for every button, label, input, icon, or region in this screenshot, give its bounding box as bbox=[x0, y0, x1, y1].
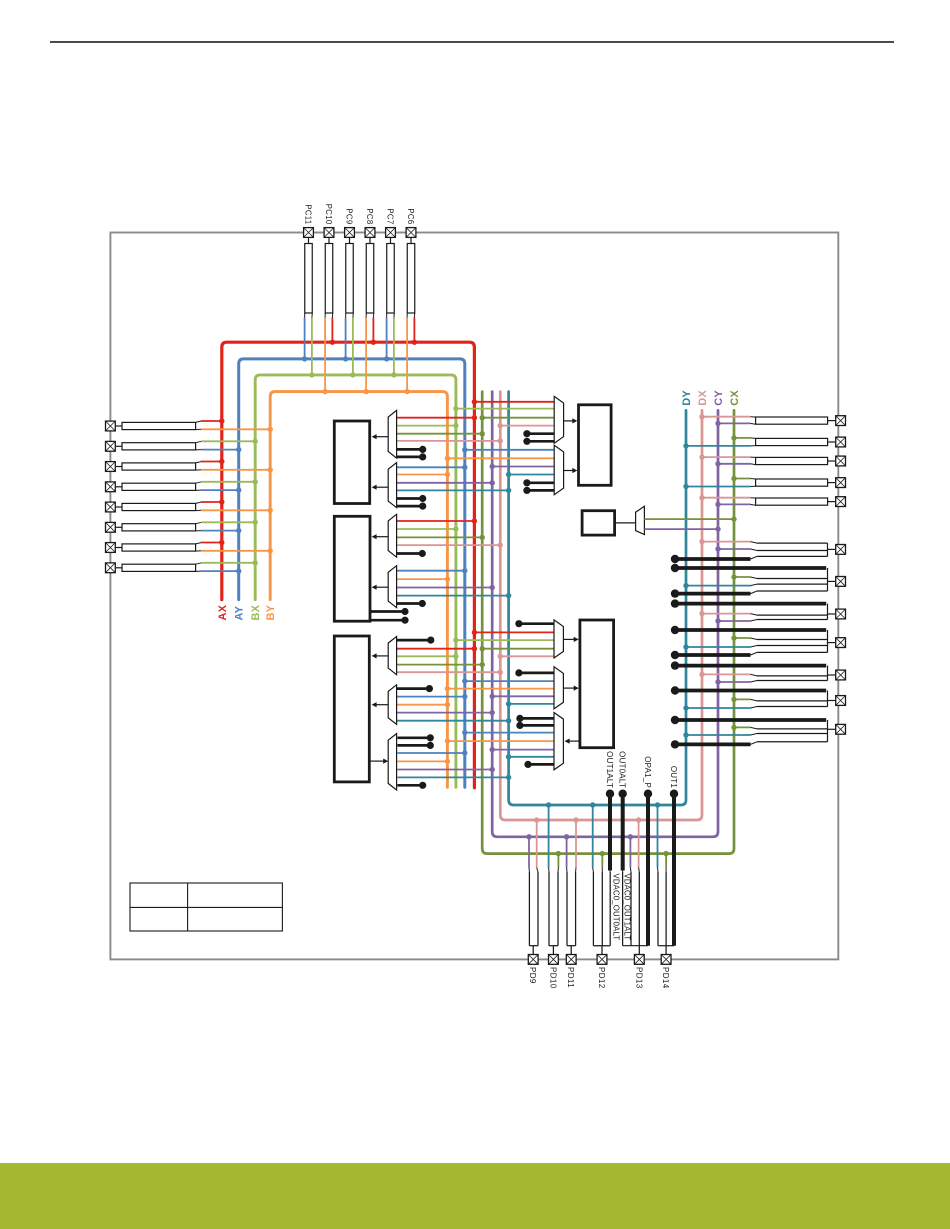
wire left L4 upper stub bbox=[196, 482, 202, 483]
wire OPA demux to CY bbox=[397, 769, 492, 771]
svg-text:PD11: PD11 bbox=[566, 967, 575, 988]
wire CY to ACMP1 mux2 bbox=[397, 587, 493, 589]
pad PC9 bbox=[345, 228, 355, 238]
wire BX to ACMP0 mux bbox=[397, 425, 456, 427]
wire CY to IADC mux1 bbox=[492, 466, 554, 468]
wire bus AY bbox=[239, 359, 465, 787]
wire BY to VDAC mux1 bbox=[447, 688, 554, 690]
mux OPA M6 bbox=[388, 685, 396, 725]
pin tap OPA demux c bbox=[397, 784, 422, 787]
pad PC6 bbox=[406, 228, 416, 238]
wire BY to ACMP1 mux2 bbox=[397, 578, 448, 580]
wire PC11 switch right to bus bbox=[311, 313, 313, 318]
pad right RB5 bbox=[836, 670, 846, 680]
pin tap IADC mux1 a bbox=[527, 481, 554, 484]
svg-text:PD13: PD13 bbox=[634, 967, 643, 989]
pin bracket pad RB4 bbox=[827, 630, 829, 652]
pin PC11 body bbox=[308, 238, 310, 244]
wire right R1 upper stub bbox=[750, 416, 755, 418]
pad PC7 bbox=[386, 228, 396, 238]
wire purple stub pad RB1 bbox=[718, 548, 751, 550]
pin tap short pad RB2 bbox=[675, 592, 751, 596]
footer green bar bbox=[0, 1163, 950, 1229]
pin tap short pad RB1 bbox=[675, 557, 751, 561]
pin tap long pad RB2 bbox=[675, 566, 826, 570]
wire VDAC demux to BY bbox=[447, 740, 554, 742]
wire pink stub pad RB5 bbox=[702, 673, 751, 675]
pin tap long pad RB4 bbox=[675, 628, 826, 632]
pad right RB1 bbox=[836, 545, 846, 555]
wire AX to VDAC mux0 bbox=[474, 631, 554, 633]
wire DX to OPA mux0 bbox=[397, 671, 501, 673]
svg-text:PC7: PC7 bbox=[386, 208, 395, 224]
pin PC6 body bbox=[410, 238, 412, 244]
pad left L4 bbox=[106, 482, 116, 492]
pin tap VDAC mux0 a bbox=[519, 622, 554, 625]
pin tap ACMP1 out a bbox=[370, 610, 405, 613]
wire CY to OPA mux1 bbox=[397, 712, 493, 714]
pin right R1 body bbox=[756, 417, 828, 424]
wire BY to IADC mux1 bbox=[447, 457, 554, 459]
pin PD11 fan bbox=[566, 868, 568, 873]
pad right RB2 bbox=[836, 577, 846, 587]
wire left L8 lower stub bbox=[196, 570, 202, 572]
pin tap ACMP1 mux2 a bbox=[397, 602, 423, 605]
pad PD13 bbox=[634, 955, 644, 965]
pin bracket pad RB1 bbox=[827, 543, 829, 556]
svg-text:PC10: PC10 bbox=[324, 204, 333, 225]
pin right R3 body bbox=[756, 457, 828, 464]
pin left L6 body bbox=[116, 526, 122, 528]
wire bus BY bbox=[270, 392, 447, 788]
pad PC10 bbox=[324, 228, 334, 238]
pin left L5 body bbox=[116, 506, 122, 508]
wire VDAC demux to CY bbox=[492, 749, 554, 751]
wire olive stub pad RB2 bbox=[734, 576, 751, 578]
pad PD11 bbox=[566, 955, 576, 965]
pad right R4 bbox=[836, 478, 846, 488]
wire left L7 lower stub bbox=[196, 550, 202, 552]
pad right RB7 bbox=[836, 724, 846, 734]
wire DY to IADC mux1 bbox=[509, 474, 555, 476]
wire BY to OPA mux1 bbox=[397, 704, 448, 706]
wire AX to ACMP0 mux bbox=[397, 417, 475, 419]
pad right R3 bbox=[836, 456, 846, 466]
pin left L7 body bbox=[116, 547, 122, 549]
svg-text:CY: CY bbox=[713, 390, 725, 406]
pin bracket pad RB6 bbox=[827, 691, 829, 707]
wire DX to ACMP1 mux bbox=[397, 544, 501, 546]
pin tap long pad RB7 bbox=[675, 718, 826, 722]
mux VDAC P0 bbox=[554, 620, 563, 658]
wire left L5 upper stub bbox=[196, 502, 202, 503]
pin PD10 fan bbox=[548, 868, 550, 873]
pin tap VDAC demux c bbox=[528, 763, 554, 766]
pin bracket pad RB5 bbox=[827, 666, 829, 681]
wire CX to IADC mux0 bbox=[482, 417, 554, 419]
wire teal stub pad RB7 bbox=[686, 734, 751, 736]
pin PC9 body bbox=[349, 238, 351, 244]
wire DX stub PD13 bbox=[638, 820, 640, 868]
legend table bbox=[130, 883, 282, 931]
wire CX to ACMP0 mux bbox=[397, 433, 483, 435]
wire PC6 switch right to bus bbox=[413, 313, 415, 318]
pin tap VDAC demux b bbox=[520, 724, 554, 727]
block OPA bbox=[334, 636, 369, 782]
pin PD12 fan bbox=[592, 868, 595, 873]
wire pink stub pad RB1 bbox=[702, 541, 751, 543]
wire demux to CY bbox=[644, 528, 718, 530]
svg-text:DY: DY bbox=[681, 390, 693, 406]
pad PD14 bbox=[661, 955, 671, 965]
wire CY stub PD9 bbox=[528, 837, 530, 868]
pin bracket pad RB7 bbox=[827, 720, 829, 742]
wire bus CX bbox=[482, 392, 734, 854]
block IADC bbox=[579, 405, 612, 486]
pad left L8 bbox=[106, 563, 116, 573]
mux ACMP1 M4 bbox=[388, 566, 396, 608]
pin tap VDAC demux a bbox=[520, 717, 554, 720]
wire PC7 switch right to bus bbox=[393, 313, 395, 318]
svg-text:OUT1: OUT1 bbox=[669, 766, 678, 788]
wire CX to ACMP1 mux bbox=[397, 536, 483, 538]
svg-text:PC9: PC9 bbox=[345, 208, 354, 224]
wire right R4 upper stub bbox=[750, 478, 755, 481]
pad left L6 bbox=[106, 522, 116, 532]
wire AY to VDAC mux1 bbox=[465, 680, 554, 682]
svg-text:PD9: PD9 bbox=[528, 967, 537, 984]
svg-text:BY: BY bbox=[265, 604, 277, 620]
mux VDAC P1 bbox=[554, 667, 563, 709]
wire left L5 lower stub bbox=[196, 509, 202, 511]
mux ACMP1 M3 bbox=[388, 514, 396, 557]
wire left L2 lower stub bbox=[196, 449, 202, 451]
wire right R4 lower stub bbox=[750, 485, 755, 487]
pin tap OPA mux1 a bbox=[397, 687, 430, 690]
wire left L7 upper stub bbox=[196, 543, 202, 544]
wire AY to ACMP0 mux2 bbox=[397, 466, 465, 468]
wire DX to IADC mux0 bbox=[500, 425, 554, 427]
pin left L3 body bbox=[116, 466, 122, 468]
pad PD10 bbox=[549, 955, 559, 965]
wire left L8 upper stub bbox=[196, 563, 202, 564]
svg-text:PD12: PD12 bbox=[597, 967, 606, 989]
wire PC9 switch left to bus bbox=[345, 313, 347, 318]
svg-text:PC11: PC11 bbox=[304, 204, 313, 224]
pad PC11 bbox=[304, 228, 314, 238]
wire CX stub PD10 bbox=[557, 854, 559, 868]
pin bracket pad RB2 bbox=[827, 568, 829, 591]
wire CY stub PD13 bbox=[629, 837, 631, 868]
pin bracket pad RB3 bbox=[827, 604, 829, 620]
pin left L2 body bbox=[116, 445, 122, 447]
pin tap IADC mux0 a bbox=[527, 432, 554, 435]
pin tap OPA demux a bbox=[397, 736, 430, 739]
svg-text:BX: BX bbox=[250, 604, 262, 620]
wire teal stub pad RB6 bbox=[686, 707, 751, 709]
mux OPA M5 bbox=[388, 637, 396, 675]
svg-text:CX: CX bbox=[729, 390, 741, 406]
wire CX stub PD12 bbox=[601, 854, 603, 868]
svg-text:OUT1ALT: OUT1ALT bbox=[605, 751, 614, 788]
wire teal stub pad RB2 bbox=[686, 585, 751, 587]
wire DY to ACMP0 mux2 bbox=[397, 489, 509, 491]
wire PC6 switch left to bus bbox=[406, 313, 408, 318]
svg-text:AY: AY bbox=[234, 605, 246, 620]
wire left L6 lower stub bbox=[196, 530, 202, 532]
wire bus DY bbox=[509, 392, 686, 805]
pin right R5 body bbox=[756, 498, 828, 505]
block VDAC2 bbox=[580, 620, 614, 748]
pad PC8 bbox=[365, 228, 375, 238]
svg-text:AX: AX bbox=[217, 604, 229, 620]
pad PD12 bbox=[597, 955, 607, 965]
pad right RB3 bbox=[836, 609, 846, 619]
wire CY to VDAC mux1 bbox=[492, 695, 554, 697]
wire right R5 upper stub bbox=[750, 497, 755, 499]
pin tap long pad RB3 bbox=[675, 602, 826, 606]
pin PD13 fan bbox=[622, 871, 624, 873]
wire right R2 lower stub bbox=[750, 445, 755, 447]
pad right R2 bbox=[836, 437, 846, 447]
wire DY stub PD10 bbox=[548, 805, 550, 868]
svg-text:PD10: PD10 bbox=[548, 967, 557, 989]
wire OPA demux to DY bbox=[397, 776, 508, 778]
pin tap ACMP0 mux2 a bbox=[397, 497, 423, 500]
pin right R4 body bbox=[756, 479, 828, 486]
pad left L1 bbox=[106, 421, 116, 431]
svg-text:PC8: PC8 bbox=[365, 208, 374, 224]
wire CX to VDAC mux0 bbox=[482, 648, 554, 650]
mux ACMP0 M1 bbox=[388, 410, 396, 458]
wire CX to OPA mux0 bbox=[397, 664, 483, 666]
pin tap OPA mux0 a bbox=[397, 639, 431, 642]
pad right RB6 bbox=[836, 696, 846, 706]
demux VDAC P2 bbox=[554, 713, 563, 770]
pin tap OPA demux b bbox=[397, 744, 430, 747]
wire DY stub PD12 bbox=[592, 805, 594, 868]
wire purple stub pad RB5 bbox=[718, 681, 751, 683]
wire PC10 switch left to bus bbox=[324, 313, 326, 318]
wire VDAC demux to AY bbox=[465, 732, 554, 734]
pad left L7 bbox=[106, 543, 116, 553]
wire AY to IADC mux1 bbox=[465, 449, 554, 451]
wire OPA demux to AY bbox=[397, 752, 464, 754]
wire CY stub PD11 bbox=[566, 837, 568, 868]
wire PC10 switch right to bus bbox=[331, 313, 333, 318]
wire olive stub pad RB6 bbox=[734, 698, 751, 700]
wire VDAC demux to DY bbox=[509, 756, 554, 758]
pin PC7 body bbox=[390, 238, 392, 244]
wire AY to OPA mux1 bbox=[397, 696, 465, 698]
demux VDAC buf bbox=[636, 506, 645, 534]
wire pink stub pad RB3 bbox=[702, 613, 751, 615]
wire BX to OPA mux0 bbox=[397, 655, 456, 657]
wire teal stub pad RB4 bbox=[686, 646, 751, 648]
wire BX to IADC mux0 bbox=[456, 408, 554, 410]
wire left L6 upper stub bbox=[196, 522, 202, 523]
wire PC8 switch left to bus bbox=[365, 313, 367, 318]
pin PD14 fan bbox=[657, 868, 660, 873]
wire AX to IADC mux0 bbox=[474, 401, 554, 403]
pin tap ACMP1 out b bbox=[370, 619, 405, 622]
pin tap long pad RB6 bbox=[675, 689, 826, 693]
pin right R2 body bbox=[756, 438, 828, 445]
svg-text:PD14: PD14 bbox=[661, 967, 670, 989]
wire right R1 lower stub bbox=[750, 422, 755, 425]
wire right R2 upper stub bbox=[750, 437, 755, 440]
page header rule bbox=[50, 41, 894, 43]
wire left L4 lower stub bbox=[196, 489, 202, 491]
wire bus BX bbox=[255, 375, 456, 787]
wire AX to ACMP1 mux bbox=[397, 520, 475, 522]
wire DY to VDAC mux1 bbox=[509, 703, 554, 705]
pin PC8 body bbox=[369, 238, 371, 244]
wire OPA demux to BY bbox=[397, 760, 447, 762]
node OUT1ALT wire bbox=[606, 790, 614, 798]
mux IADC P0 bbox=[554, 396, 563, 443]
pin tap ACMP0 mux a bbox=[397, 448, 423, 451]
wire demux to CX bbox=[644, 518, 734, 520]
wire DX to ACMP0 mux bbox=[397, 440, 501, 442]
pin tap IADC mux1 b bbox=[527, 489, 554, 492]
block ACMP0 bbox=[334, 421, 369, 504]
pad right RB4 bbox=[836, 638, 846, 648]
wire DX stub PD9 bbox=[536, 820, 538, 868]
pin tap IADC mux0 b bbox=[527, 440, 554, 443]
mux IADC P1 bbox=[554, 445, 563, 494]
wire VDAC to demux bbox=[615, 522, 636, 524]
pin tap short pad RB4 bbox=[675, 653, 751, 657]
wire olive stub pad RB4 bbox=[734, 637, 751, 639]
wire left L1 lower stub bbox=[196, 428, 202, 430]
wire DY stub PD14 bbox=[657, 805, 659, 868]
pin tap long pad RB5 bbox=[675, 664, 826, 668]
pin left L4 body bbox=[116, 486, 122, 488]
wire right R3 lower stub bbox=[750, 463, 755, 466]
wire PC9 switch right to bus bbox=[352, 313, 354, 318]
svg-text:OPA1_P: OPA1_P bbox=[643, 756, 652, 788]
wire DX to VDAC mux0 bbox=[500, 655, 554, 657]
wire right R5 lower stub bbox=[750, 503, 755, 506]
pad left L2 bbox=[106, 441, 116, 451]
wire PC7 switch left to bus bbox=[386, 313, 388, 318]
wire bus CY bbox=[492, 392, 718, 837]
mux ACMP0 M2 bbox=[388, 463, 396, 508]
pin tap ACMP0 mux2 b bbox=[397, 505, 423, 508]
wire BX to VDAC mux0 bbox=[456, 639, 554, 641]
pin PC10 body bbox=[328, 238, 330, 244]
wire purple stub pad RB3 bbox=[718, 620, 751, 622]
wire DY to ACMP1 mux2 bbox=[397, 595, 509, 597]
pad right R5 bbox=[836, 497, 846, 507]
svg-text:VDAC0_OUT1ALT: VDAC0_OUT1ALT bbox=[623, 874, 632, 941]
pin tap VDAC mux1 a bbox=[519, 672, 554, 675]
wire bus AX bbox=[222, 342, 475, 788]
wire AX to OPA mux0 bbox=[397, 648, 475, 650]
node OPA1_P wire bbox=[644, 790, 652, 798]
wire BY to ACMP0 mux2 bbox=[397, 474, 448, 476]
wire DY to OPA mux1 bbox=[397, 720, 509, 722]
pin tap ACMP1 mux a bbox=[397, 552, 423, 555]
figure border bbox=[110, 233, 838, 960]
wire left L2 upper stub bbox=[196, 441, 202, 442]
wire right R3 upper stub bbox=[750, 456, 755, 458]
pin tap ACMP0 mux b bbox=[397, 456, 423, 459]
wire left L1 upper stub bbox=[196, 421, 202, 422]
svg-text:OUT0ALT: OUT0ALT bbox=[618, 751, 627, 788]
wire left L3 upper stub bbox=[196, 462, 202, 463]
wire CX stub PD14 bbox=[665, 854, 667, 868]
svg-text:PC6: PC6 bbox=[406, 208, 415, 224]
wire CY to ACMP0 mux2 bbox=[397, 482, 493, 484]
wire PC11 switch left to bus bbox=[304, 313, 306, 318]
svg-text:DX: DX bbox=[697, 390, 709, 406]
demux OPA M7 bbox=[388, 734, 396, 790]
node OUT1 wire bbox=[670, 790, 678, 798]
wire BX to ACMP1 mux bbox=[397, 528, 456, 530]
wire olive stub pad RB7 bbox=[734, 726, 751, 728]
pin left L1 body bbox=[116, 425, 122, 427]
wire bus DX bbox=[500, 392, 702, 820]
svg-text:VDAC0_OUT0ALT: VDAC0_OUT0ALT bbox=[611, 874, 620, 941]
pin left L8 body bbox=[116, 567, 122, 569]
wire PC8 switch right to bus bbox=[372, 313, 374, 318]
pad left L3 bbox=[106, 462, 116, 472]
pad PD9 bbox=[528, 955, 538, 965]
wire left L3 lower stub bbox=[196, 469, 202, 471]
pad right R1 bbox=[836, 416, 846, 426]
block VDAC bbox=[582, 511, 615, 535]
wire AY to ACMP1 mux2 bbox=[397, 570, 465, 572]
node OUT0ALT wire bbox=[619, 790, 627, 798]
pin tap short pad RB7 bbox=[675, 743, 751, 747]
pad left L5 bbox=[106, 502, 116, 512]
wire DX stub PD11 bbox=[575, 820, 577, 868]
block ACMP1 bbox=[334, 516, 370, 621]
pin PD9 fan bbox=[528, 868, 530, 873]
